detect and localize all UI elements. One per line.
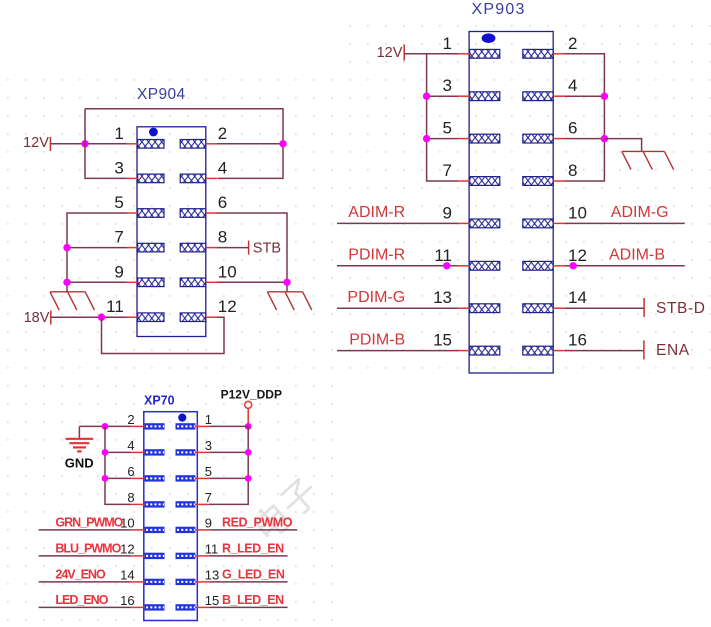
XP70 pin 1 xyxy=(176,412,213,430)
svg-text:5: 5 xyxy=(443,119,452,138)
wire 12V vertical to pin 3 xyxy=(85,109,127,179)
svg-text:1: 1 xyxy=(205,412,212,427)
svg-text:8: 8 xyxy=(127,490,134,505)
wire P12V right bus xyxy=(209,426,248,504)
svg-text:15: 15 xyxy=(205,593,219,608)
wire net ADIM-R xyxy=(337,222,458,224)
port 18V xyxy=(24,310,51,326)
svg-text:ADIM-R: ADIM-R xyxy=(348,204,405,221)
XP904 pin 1 xyxy=(114,124,164,148)
svg-text:11: 11 xyxy=(205,541,219,556)
wire pin 1 to bus xyxy=(209,425,248,427)
junction pin 9 xyxy=(63,279,70,286)
junction pin 3 xyxy=(423,93,430,100)
wire left bus to pin 7 xyxy=(67,247,127,249)
XP904 pin 5 xyxy=(114,193,164,217)
svg-text:16: 16 xyxy=(568,331,587,350)
svg-text:PDIM-G: PDIM-G xyxy=(347,289,405,306)
svg-text:12: 12 xyxy=(568,246,587,265)
wire bus to pin 6 xyxy=(105,477,131,479)
wire 18V bottom route to pin 12 xyxy=(102,317,225,353)
svg-text:10: 10 xyxy=(568,203,587,222)
svg-text:12: 12 xyxy=(218,297,237,316)
XP904 pin 6 xyxy=(180,193,227,217)
junction pin 3 (XP70) xyxy=(245,449,252,456)
XP903 pin 16 xyxy=(523,331,587,355)
XP70 pin 3 xyxy=(176,438,213,456)
XP70 pin 8 xyxy=(127,490,164,508)
wire pin 14 to STB-D xyxy=(565,307,644,309)
wire 12V to pin 1 xyxy=(404,53,458,55)
svg-text:2: 2 xyxy=(218,124,227,143)
junction 18V node xyxy=(98,314,105,321)
wire net G_LED_EN xyxy=(209,581,287,583)
ground GND (earth symbol) xyxy=(66,426,94,451)
XP903 pin 6 xyxy=(523,119,578,143)
XP903 pin 2 xyxy=(523,34,578,58)
grid dots left sheet area xyxy=(0,66,340,622)
wire bus to pin 3 xyxy=(209,451,248,453)
wire 18V to pin 11 xyxy=(51,316,127,318)
wire 12V left bus xyxy=(427,54,458,181)
svg-text:3: 3 xyxy=(443,76,452,95)
wire left bus to pin 5 xyxy=(427,138,458,140)
svg-text:15: 15 xyxy=(433,331,452,350)
svg-text:STB-D: STB-D xyxy=(656,300,706,317)
XP903 pin 10 xyxy=(523,203,587,227)
wire junction to XP904 pin 1 xyxy=(85,143,127,145)
XP903 pin 7 xyxy=(443,161,500,185)
wire bus to pin 4 xyxy=(105,451,131,453)
XP70 pin 7 xyxy=(176,490,213,508)
wire net ADIM-B xyxy=(565,265,685,267)
svg-text:BLU_PWMO: BLU_PWMO xyxy=(55,542,121,556)
XP904 pin 7 xyxy=(114,228,164,252)
svg-text:9: 9 xyxy=(443,203,452,222)
svg-text:9: 9 xyxy=(114,262,123,281)
wire to ground (XP903) xyxy=(604,139,641,152)
XP70 pin 15 xyxy=(176,593,220,611)
wire net B_LED_EN xyxy=(209,606,287,608)
XP903 pin 9 xyxy=(443,203,500,227)
wire 12V top route to right side xyxy=(85,109,283,179)
XP70 pin 11 xyxy=(176,541,219,559)
svg-text:24V_ENO: 24V_ENO xyxy=(55,568,106,582)
connector XP904 body xyxy=(137,127,206,337)
svg-text:6: 6 xyxy=(218,193,227,212)
wire net 24V_ENO xyxy=(39,581,132,583)
junction pin 4 (XP70) xyxy=(102,449,109,456)
junction PDIM-R at pin 11 xyxy=(443,262,450,269)
XP904 pin 10 xyxy=(180,262,237,286)
svg-text:STB: STB xyxy=(253,241,281,257)
junction pin 7 xyxy=(63,244,70,251)
XP903 pin 4 xyxy=(523,76,578,100)
port 12V (XP903) xyxy=(377,45,405,61)
XP70 pin 10 xyxy=(120,515,164,533)
wire net PDIM-B xyxy=(337,350,458,352)
XP903 pin 13 xyxy=(433,288,500,312)
junction at pin 2 column xyxy=(279,140,286,147)
junction ADIM-B at pin 12 xyxy=(570,262,577,269)
wire pin 16 to ENA xyxy=(565,350,644,352)
XP70 pin 12 xyxy=(120,541,164,559)
svg-text:16: 16 xyxy=(120,593,134,608)
svg-text:XP904: XP904 xyxy=(137,86,186,103)
junction pin 6 (XP70) xyxy=(102,475,109,482)
ground right (XP904) xyxy=(267,292,311,310)
svg-text:PDIM-R: PDIM-R xyxy=(348,247,405,264)
svg-text:GND: GND xyxy=(65,455,94,470)
XP904 pin 3 xyxy=(114,158,164,182)
ground right (XP903) xyxy=(622,151,674,169)
XP903 pin 8 xyxy=(523,161,578,185)
svg-text:18V: 18V xyxy=(24,310,50,326)
wire XP904 pin 6 to right bus xyxy=(217,213,287,292)
svg-text:12V: 12V xyxy=(23,135,49,151)
wire net LED_ENO xyxy=(39,606,132,608)
wire net RED_PWMO xyxy=(209,529,297,531)
svg-text:ADIM-G: ADIM-G xyxy=(611,204,669,221)
junction P12V at pin 1 xyxy=(245,423,252,430)
wire left bus to pin 3 xyxy=(427,95,458,97)
wire P12V_DDP drop xyxy=(247,408,249,426)
svg-text:ADIM-B: ADIM-B xyxy=(609,247,665,264)
XP904 pin 4 xyxy=(180,158,227,182)
junction pin 6 / ground tap xyxy=(601,135,608,142)
XP70 pin 14 xyxy=(120,567,164,585)
junction pin 10 xyxy=(283,279,290,286)
port STB xyxy=(249,241,281,257)
svg-text:GRN_PWMO: GRN_PWMO xyxy=(55,516,123,530)
svg-text:7: 7 xyxy=(205,490,212,505)
svg-text:4: 4 xyxy=(568,76,577,95)
wire right bus pins 2-8 xyxy=(565,54,604,181)
svg-text:11: 11 xyxy=(106,297,124,316)
wire net R_LED_EN xyxy=(209,555,287,557)
svg-text:8: 8 xyxy=(218,228,227,247)
wire right bus to pin 4 xyxy=(565,95,604,97)
grid dots right sheet area xyxy=(340,14,711,378)
XP904 pin 11 xyxy=(106,297,164,321)
connector XP903 body xyxy=(469,32,553,374)
svg-text:1: 1 xyxy=(114,124,123,143)
svg-text:12V: 12V xyxy=(377,45,403,61)
wire net GRN_PWMO xyxy=(39,529,132,531)
XP904 pin 2 xyxy=(180,124,227,148)
XP904 pin 9 xyxy=(114,262,164,286)
wire XP904 pin 5 to left bus xyxy=(67,213,127,292)
wire net ADIM-G xyxy=(565,222,685,224)
junction pin 4 xyxy=(601,93,608,100)
svg-text:LED_ENO: LED_ENO xyxy=(55,593,108,607)
port STB-D xyxy=(644,298,705,317)
svg-text:XP903: XP903 xyxy=(472,1,526,18)
svg-text:7: 7 xyxy=(114,228,123,247)
svg-text:4: 4 xyxy=(127,438,134,453)
wire right bus to pin 6 xyxy=(565,138,604,140)
svg-text:2: 2 xyxy=(568,34,577,53)
svg-text:10: 10 xyxy=(218,262,237,281)
svg-text:5: 5 xyxy=(205,464,212,479)
wire pin 8 to STB port xyxy=(217,247,248,249)
svg-text:3: 3 xyxy=(205,438,212,453)
XP903 pin 3 xyxy=(443,76,500,100)
port 12V (XP904) xyxy=(23,135,50,151)
svg-text:6: 6 xyxy=(568,119,577,138)
svg-text:13: 13 xyxy=(433,288,452,307)
XP903 pin 1 xyxy=(443,34,500,58)
XP70 pin 6 xyxy=(127,464,164,482)
svg-text:5: 5 xyxy=(114,193,123,212)
junction GND bus top xyxy=(102,423,109,430)
wire net BLU_PWMO xyxy=(39,555,132,557)
port ENA xyxy=(644,340,690,359)
svg-text:7: 7 xyxy=(443,161,452,180)
svg-text:R_LED_EN: R_LED_EN xyxy=(222,542,284,556)
svg-text:9: 9 xyxy=(205,515,212,530)
svg-text:RED_PWMO: RED_PWMO xyxy=(222,516,293,530)
svg-text:3: 3 xyxy=(114,158,123,177)
wire to XP904 pin 2 xyxy=(217,143,283,145)
svg-text:G_LED_EN: G_LED_EN xyxy=(222,568,285,582)
svg-text:14: 14 xyxy=(120,567,134,582)
svg-text:1: 1 xyxy=(443,34,452,53)
svg-text:2: 2 xyxy=(127,412,134,427)
wire GND to pin 2 xyxy=(79,425,131,427)
wire net PDIM-G xyxy=(337,307,458,309)
svg-text:12: 12 xyxy=(120,541,134,556)
svg-text:XP70: XP70 xyxy=(144,394,175,408)
XP70 pin 5 xyxy=(176,464,213,482)
XP70 pin 2 xyxy=(127,412,164,430)
svg-text:11: 11 xyxy=(434,246,452,265)
XP70 pin 13 xyxy=(176,567,220,585)
wire 12V to pin1 junction xyxy=(50,143,85,145)
svg-text:P12V_DDP: P12V_DDP xyxy=(221,387,282,401)
junction pin 5 (XP70) xyxy=(245,475,252,482)
XP70 pin 9 xyxy=(176,515,213,533)
XP903 pin 11 xyxy=(434,246,499,270)
junction 12V node xyxy=(81,140,88,147)
connector XP70 body xyxy=(144,412,198,621)
wire net PDIM-R xyxy=(337,265,458,267)
XP904 pin 8 xyxy=(180,228,227,252)
svg-text:8: 8 xyxy=(568,161,577,180)
svg-text:6: 6 xyxy=(127,464,134,479)
svg-text:PDIM-B: PDIM-B xyxy=(349,331,405,348)
ground left (XP904) xyxy=(50,292,94,310)
wire left bus to pin 9 xyxy=(67,281,127,283)
XP903 pin 12 xyxy=(523,246,587,270)
wire GND left bus xyxy=(105,426,131,504)
junction pin 5 xyxy=(423,135,430,142)
svg-text:B_LED_EN: B_LED_EN xyxy=(222,593,284,607)
svg-text:ENA: ENA xyxy=(656,342,690,359)
power node P12V_DDP xyxy=(221,387,282,408)
XP70 pin 4 xyxy=(127,438,164,456)
wire right bus to pin 10 xyxy=(217,281,287,283)
wire bus to pin 5 xyxy=(209,477,248,479)
svg-text:14: 14 xyxy=(568,288,587,307)
XP70 pin 16 xyxy=(120,593,164,611)
svg-text:4: 4 xyxy=(218,158,227,177)
svg-text:13: 13 xyxy=(205,567,219,582)
XP903 pin 15 xyxy=(433,331,500,355)
XP904 pin 12 xyxy=(180,297,237,321)
watermark xyxy=(245,470,327,550)
XP903 pin 14 xyxy=(523,288,587,312)
XP903 pin 5 xyxy=(443,119,500,143)
